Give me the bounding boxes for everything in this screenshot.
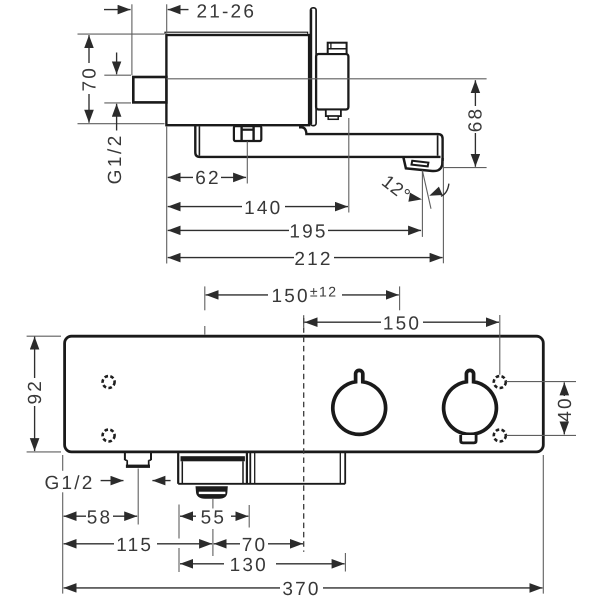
ext line: body left face up — [166, 4, 168, 33]
fixing hole bottom left (dashed) — [103, 430, 115, 442]
dim 70 arrows — [214, 543, 240, 545]
block top tab — [328, 43, 347, 54]
nozzle outlet slot — [412, 161, 429, 167]
svg-text:150: 150 — [383, 313, 421, 334]
right handle (keyhole knob) — [444, 370, 497, 434]
svg-text:115: 115 — [116, 535, 153, 556]
left handle (keyhole knob) — [333, 370, 386, 434]
ext line: panel left edge down — [62, 455, 64, 471]
panel centreline (dashed) — [303, 318, 305, 552]
ext line: body top, left — [78, 33, 165, 35]
svg-text:62: 62 — [195, 168, 221, 189]
right handle bottom safety tab — [461, 435, 476, 443]
ext line: panel top left — [27, 335, 61, 337]
fixing hole top right (dashed) — [494, 376, 506, 388]
aerator dome — [196, 486, 228, 499]
dim 195 arrows — [168, 229, 289, 231]
svg-text:40: 40 — [555, 396, 576, 422]
dim 40 arrows — [563, 382, 565, 396]
arm left inner line — [198, 126, 200, 155]
svg-text:21-26: 21-26 — [197, 1, 257, 22]
ext line: diverter centre — [246, 141, 248, 183]
svg-text:70: 70 — [242, 535, 268, 556]
svg-text:G1/2: G1/2 — [105, 133, 126, 184]
arm end inner line — [437, 135, 439, 155]
dim G1/2 leader arrows — [101, 480, 124, 482]
dim G1/2 stub arrows — [116, 53, 118, 75]
svg-text:92: 92 — [25, 379, 46, 405]
ext line: stub front face up — [131, 4, 133, 75]
G1/2 inlet stub below panel — [125, 453, 151, 465]
ext line: hole centre top right — [506, 381, 576, 383]
svg-text:212: 212 — [294, 249, 332, 270]
dim 115 arrows — [64, 543, 114, 545]
ext line: block right edge — [348, 118, 350, 213]
svg-text:58: 58 — [87, 507, 113, 528]
12 degree angle arrows — [408, 187, 442, 204]
dim 140 arrows — [168, 206, 242, 208]
ext line: inlet stub centre — [137, 469, 139, 525]
solid tick on centreline — [303, 315, 305, 327]
dim 70 arrows — [88, 35, 90, 63]
ext line: outlet vertical — [421, 171, 423, 237]
ext line: spout centre down — [212, 499, 214, 509]
dim 212 arrows — [168, 257, 294, 259]
ext line: left fixing distance tick — [204, 286, 206, 310]
ext line: 150 to fixing holes — [499, 315, 501, 375]
fixing hole bottom right (dashed) — [494, 430, 506, 442]
ext line: body box right down — [344, 553, 346, 572]
dim 21-26 arrows — [104, 9, 131, 11]
svg-text:370: 370 — [282, 579, 320, 600]
svg-text:140: 140 — [244, 198, 282, 219]
spout nozzle (12° outlet) — [403, 157, 442, 171]
bath spout box below panel — [178, 453, 345, 484]
ext line: outlet bottom, right — [444, 167, 487, 169]
cartridge block behind plate — [316, 54, 348, 110]
spout arm top right edge with step — [299, 127, 443, 163]
ext line: stub bottom — [104, 102, 131, 104]
ext line: right fixing distance tick — [399, 286, 401, 310]
svg-text:68: 68 — [466, 107, 487, 133]
ext line: hole centre bottom right — [506, 434, 576, 436]
dim 370 arrows — [64, 587, 280, 589]
dim 58 arrows — [64, 515, 86, 517]
dim 150 arrows — [305, 321, 382, 323]
dim 62 arrows — [168, 176, 193, 178]
spout arm outline — [195, 126, 440, 157]
spout box dark band — [181, 456, 245, 461]
dim 68 arrows — [474, 80, 476, 106]
dim 130 arrows — [180, 563, 224, 565]
12 degree slanted reference line — [422, 171, 431, 209]
fixing hole top left (dashed) — [103, 376, 115, 388]
svg-text:195: 195 — [289, 222, 327, 243]
ext line: body box left down — [248, 505, 250, 528]
ext line: panel bottom left — [27, 451, 61, 453]
dim 92 arrows — [34, 337, 36, 378]
body top accent line — [165, 32, 308, 34]
ext line: body bottom, left — [78, 123, 165, 125]
svg-text:55: 55 — [201, 507, 227, 528]
G1/2 wall connection stub (side view) — [133, 77, 166, 102]
ext line: spout box left down — [178, 505, 180, 539]
svg-text:70: 70 — [80, 66, 101, 92]
ext line: body left face down — [166, 127, 168, 264]
block bottom steps — [326, 110, 341, 117]
wall plate (escutcheon, side view) — [311, 8, 317, 126]
svg-text:G1/2: G1/2 — [45, 473, 95, 494]
diverter button on arm — [234, 126, 261, 141]
mixer body (side view) — [166, 35, 309, 125]
ext line: arm end — [442, 161, 444, 263]
svg-text:130: 130 — [230, 555, 268, 576]
dim 150±12 arrows — [206, 294, 268, 296]
dim 55 arrows — [180, 515, 196, 517]
body box behind panel (lower right) — [250, 453, 345, 484]
ext line: panel right edge down — [542, 455, 544, 594]
front panel — [65, 336, 544, 452]
centerline of mixer body — [166, 78, 486, 80]
ext line: stub top — [104, 74, 131, 76]
